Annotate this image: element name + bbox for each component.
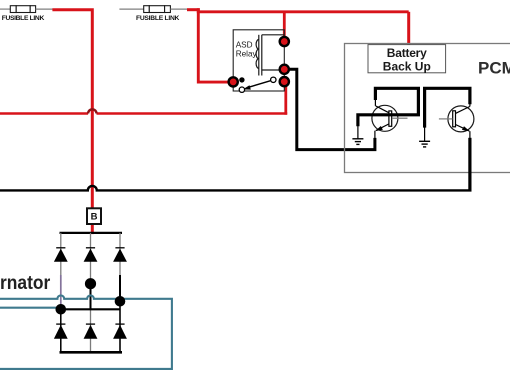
node dot phase 1 [56, 304, 67, 315]
bridge phase line 1 [60, 233, 62, 352]
rectifier bridge top rail [60, 232, 123, 234]
wire teal stator loop with hops [0, 295, 172, 369]
wire red below B box into rectifier bridge [91, 224, 94, 234]
wire black long ground bus with hop over red [0, 186, 472, 191]
svg-text:ASD: ASD [236, 41, 253, 50]
svg-text:Battery: Battery [387, 46, 427, 60]
wire gray lead out of fusible link F1 [36, 8, 53, 10]
ground G2 [419, 127, 430, 147]
stator wire black segment phase 2 [90, 284, 92, 309]
diode D2 [84, 248, 98, 262]
ASD relay box [233, 30, 284, 91]
wire gray lead out of fusible link F2 [170, 8, 188, 10]
transistor Q1 [372, 100, 408, 140]
wire black from relay common to PCM transistor T1 emitter [284, 69, 375, 149]
relay coil [256, 35, 284, 76]
relay terminal middle [280, 65, 289, 74]
fusible link F1 [10, 6, 35, 13]
bridge middle rail [61, 308, 120, 310]
Battery Back Up box [368, 45, 446, 73]
bridge lower black segment phase 1 [60, 309, 62, 352]
relay switch pivot contact [271, 77, 276, 82]
wire red stub from F2 to junction [187, 8, 200, 11]
bridge phase line 3 [119, 233, 121, 352]
ground G1 [352, 126, 363, 144]
diode D1 [54, 248, 68, 262]
relay terminal bottom [280, 77, 289, 86]
relay terminal left [229, 77, 238, 86]
wire red long horizontal bus [0, 112, 287, 115]
node dot phase 2 [85, 278, 96, 289]
wire red from relay switch terminal down to bus [284, 82, 287, 115]
svg-text:FUSIBLE LINK: FUSIBLE LINK [2, 15, 45, 22]
wire gray lead into fusible link F2 [119, 8, 143, 10]
wire red main feed to battery backup [197, 10, 409, 13]
svg-text:PCM: PCM [478, 59, 510, 78]
svg-text:FUSIBLE LINK: FUSIBLE LINK [136, 15, 180, 22]
diode D5 [84, 324, 98, 339]
wire hop red bus over vertical [88, 109, 96, 113]
stator wire black segment phase 3 [119, 275, 121, 301]
stator wire purple segment phase 1 [60, 275, 62, 306]
bridge phase line 2 [90, 233, 92, 352]
svg-text:Relay: Relay [236, 50, 258, 59]
diode D3 [113, 248, 127, 262]
bridge bottom rail [60, 351, 123, 354]
node B box [87, 208, 101, 224]
svg-text:Alternator: Alternator [0, 272, 51, 294]
diode D6 [113, 324, 127, 339]
relay black dot [239, 77, 244, 82]
svg-text:B: B [91, 212, 98, 223]
wire red drop to ASD relay coil side (left) [198, 8, 233, 82]
PCM box [345, 44, 510, 173]
wire teal stator lead to phase 1 [0, 307, 58, 309]
wire gray lead into fusible link F1 [0, 8, 11, 10]
node dot phase 3 [115, 296, 126, 307]
relay lower contact [239, 87, 244, 92]
wire red from F1 right and down to node B [52, 10, 92, 208]
transistor Q2 [439, 104, 474, 138]
svg-text:Back Up: Back Up [383, 60, 431, 74]
wire red drop into Battery Back Up [407, 12, 410, 45]
transistor Q1 collector loop thick wiring [358, 88, 419, 126]
relay terminal top [280, 37, 289, 46]
fusible link F2 [144, 6, 171, 13]
transistor Q2 collector loop thick wiring [425, 88, 470, 127]
diode D4 [54, 324, 68, 339]
bridge lower black segment phase 3 [119, 301, 121, 352]
wire black Q2 emitter drop [468, 138, 471, 191]
wire red drop to ASD relay top terminal [283, 12, 286, 42]
relay switch arm [243, 81, 271, 90]
